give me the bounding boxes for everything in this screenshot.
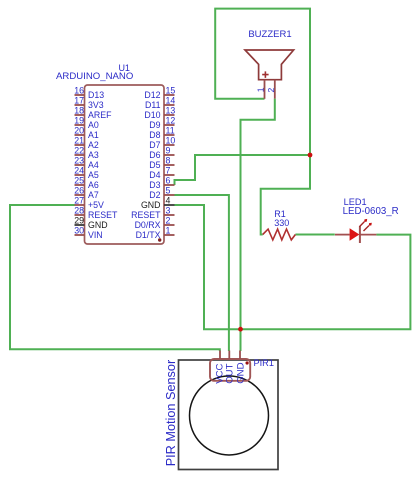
svg-text:D4: D4 [149,170,160,180]
svg-text:A7: A7 [88,190,99,200]
svg-text:D6: D6 [149,150,160,160]
svg-text:BUZZER1: BUZZER1 [248,29,291,40]
svg-text:26: 26 [74,185,84,195]
svg-text:PIR1: PIR1 [254,358,274,368]
svg-text:330: 330 [274,218,289,228]
svg-text:28: 28 [74,205,84,215]
svg-text:12: 12 [166,115,176,125]
svg-text:5: 5 [166,185,171,195]
svg-text:GND: GND [88,220,108,230]
svg-text:3: 3 [166,205,171,215]
svg-text:6: 6 [166,175,171,185]
svg-text:19: 19 [74,115,84,125]
svg-text:22: 22 [74,145,84,155]
svg-text:1: 1 [256,87,266,92]
svg-text:10: 10 [166,135,176,145]
svg-text:OUT: OUT [224,363,235,383]
svg-text:D3: D3 [149,180,160,190]
svg-text:RESET: RESET [88,210,118,220]
svg-text:2: 2 [166,215,171,225]
svg-text:A2: A2 [88,140,99,150]
svg-text:AREF: AREF [88,110,112,120]
svg-text:3V3: 3V3 [88,100,104,110]
svg-text:24: 24 [74,165,84,175]
svg-text:17: 17 [74,95,84,105]
svg-text:D7: D7 [149,140,160,150]
svg-text:29: 29 [74,215,84,225]
svg-text:D1/TX: D1/TX [136,230,161,240]
svg-text:GND: GND [236,362,247,383]
svg-text:LED-0603_R: LED-0603_R [343,206,399,217]
svg-text:A0: A0 [88,120,99,130]
svg-text:D10: D10 [144,110,160,120]
svg-text:RESET: RESET [131,210,161,220]
svg-text:A5: A5 [88,170,99,180]
svg-text:D8: D8 [149,130,160,140]
svg-text:8: 8 [166,155,171,165]
svg-text:4: 4 [166,195,171,205]
svg-text:D9: D9 [149,120,160,130]
svg-text:1: 1 [166,225,171,235]
svg-text:PIR Motion Sensor: PIR Motion Sensor [164,359,178,466]
svg-text:D2: D2 [149,190,160,200]
svg-text:9: 9 [166,145,171,155]
svg-text:2: 2 [266,88,276,93]
svg-text:GND: GND [141,200,161,210]
svg-text:D5: D5 [149,160,160,170]
svg-text:25: 25 [74,175,84,185]
svg-text:A1: A1 [88,130,99,140]
svg-text:VIN: VIN [88,230,103,240]
svg-text:ARDUINO_NANO: ARDUINO_NANO [56,71,133,82]
svg-text:7: 7 [166,165,171,175]
svg-text:15: 15 [166,85,176,95]
svg-text:A4: A4 [88,160,99,170]
svg-text:+5V: +5V [88,200,104,210]
svg-text:D11: D11 [145,100,161,110]
svg-text:D0/RX: D0/RX [135,220,161,230]
svg-text:A6: A6 [88,180,99,190]
svg-text:13: 13 [166,105,176,115]
svg-text:21: 21 [74,135,84,145]
svg-text:20: 20 [74,125,84,135]
svg-text:D12: D12 [144,90,160,100]
svg-text:11: 11 [166,125,175,135]
svg-text:23: 23 [74,155,84,165]
svg-text:D13: D13 [88,90,104,100]
svg-text:A3: A3 [88,150,99,160]
svg-text:30: 30 [74,225,84,235]
svg-text:16: 16 [74,85,84,95]
svg-text:14: 14 [166,95,176,105]
svg-text:27: 27 [74,195,84,205]
svg-text:18: 18 [74,105,84,115]
